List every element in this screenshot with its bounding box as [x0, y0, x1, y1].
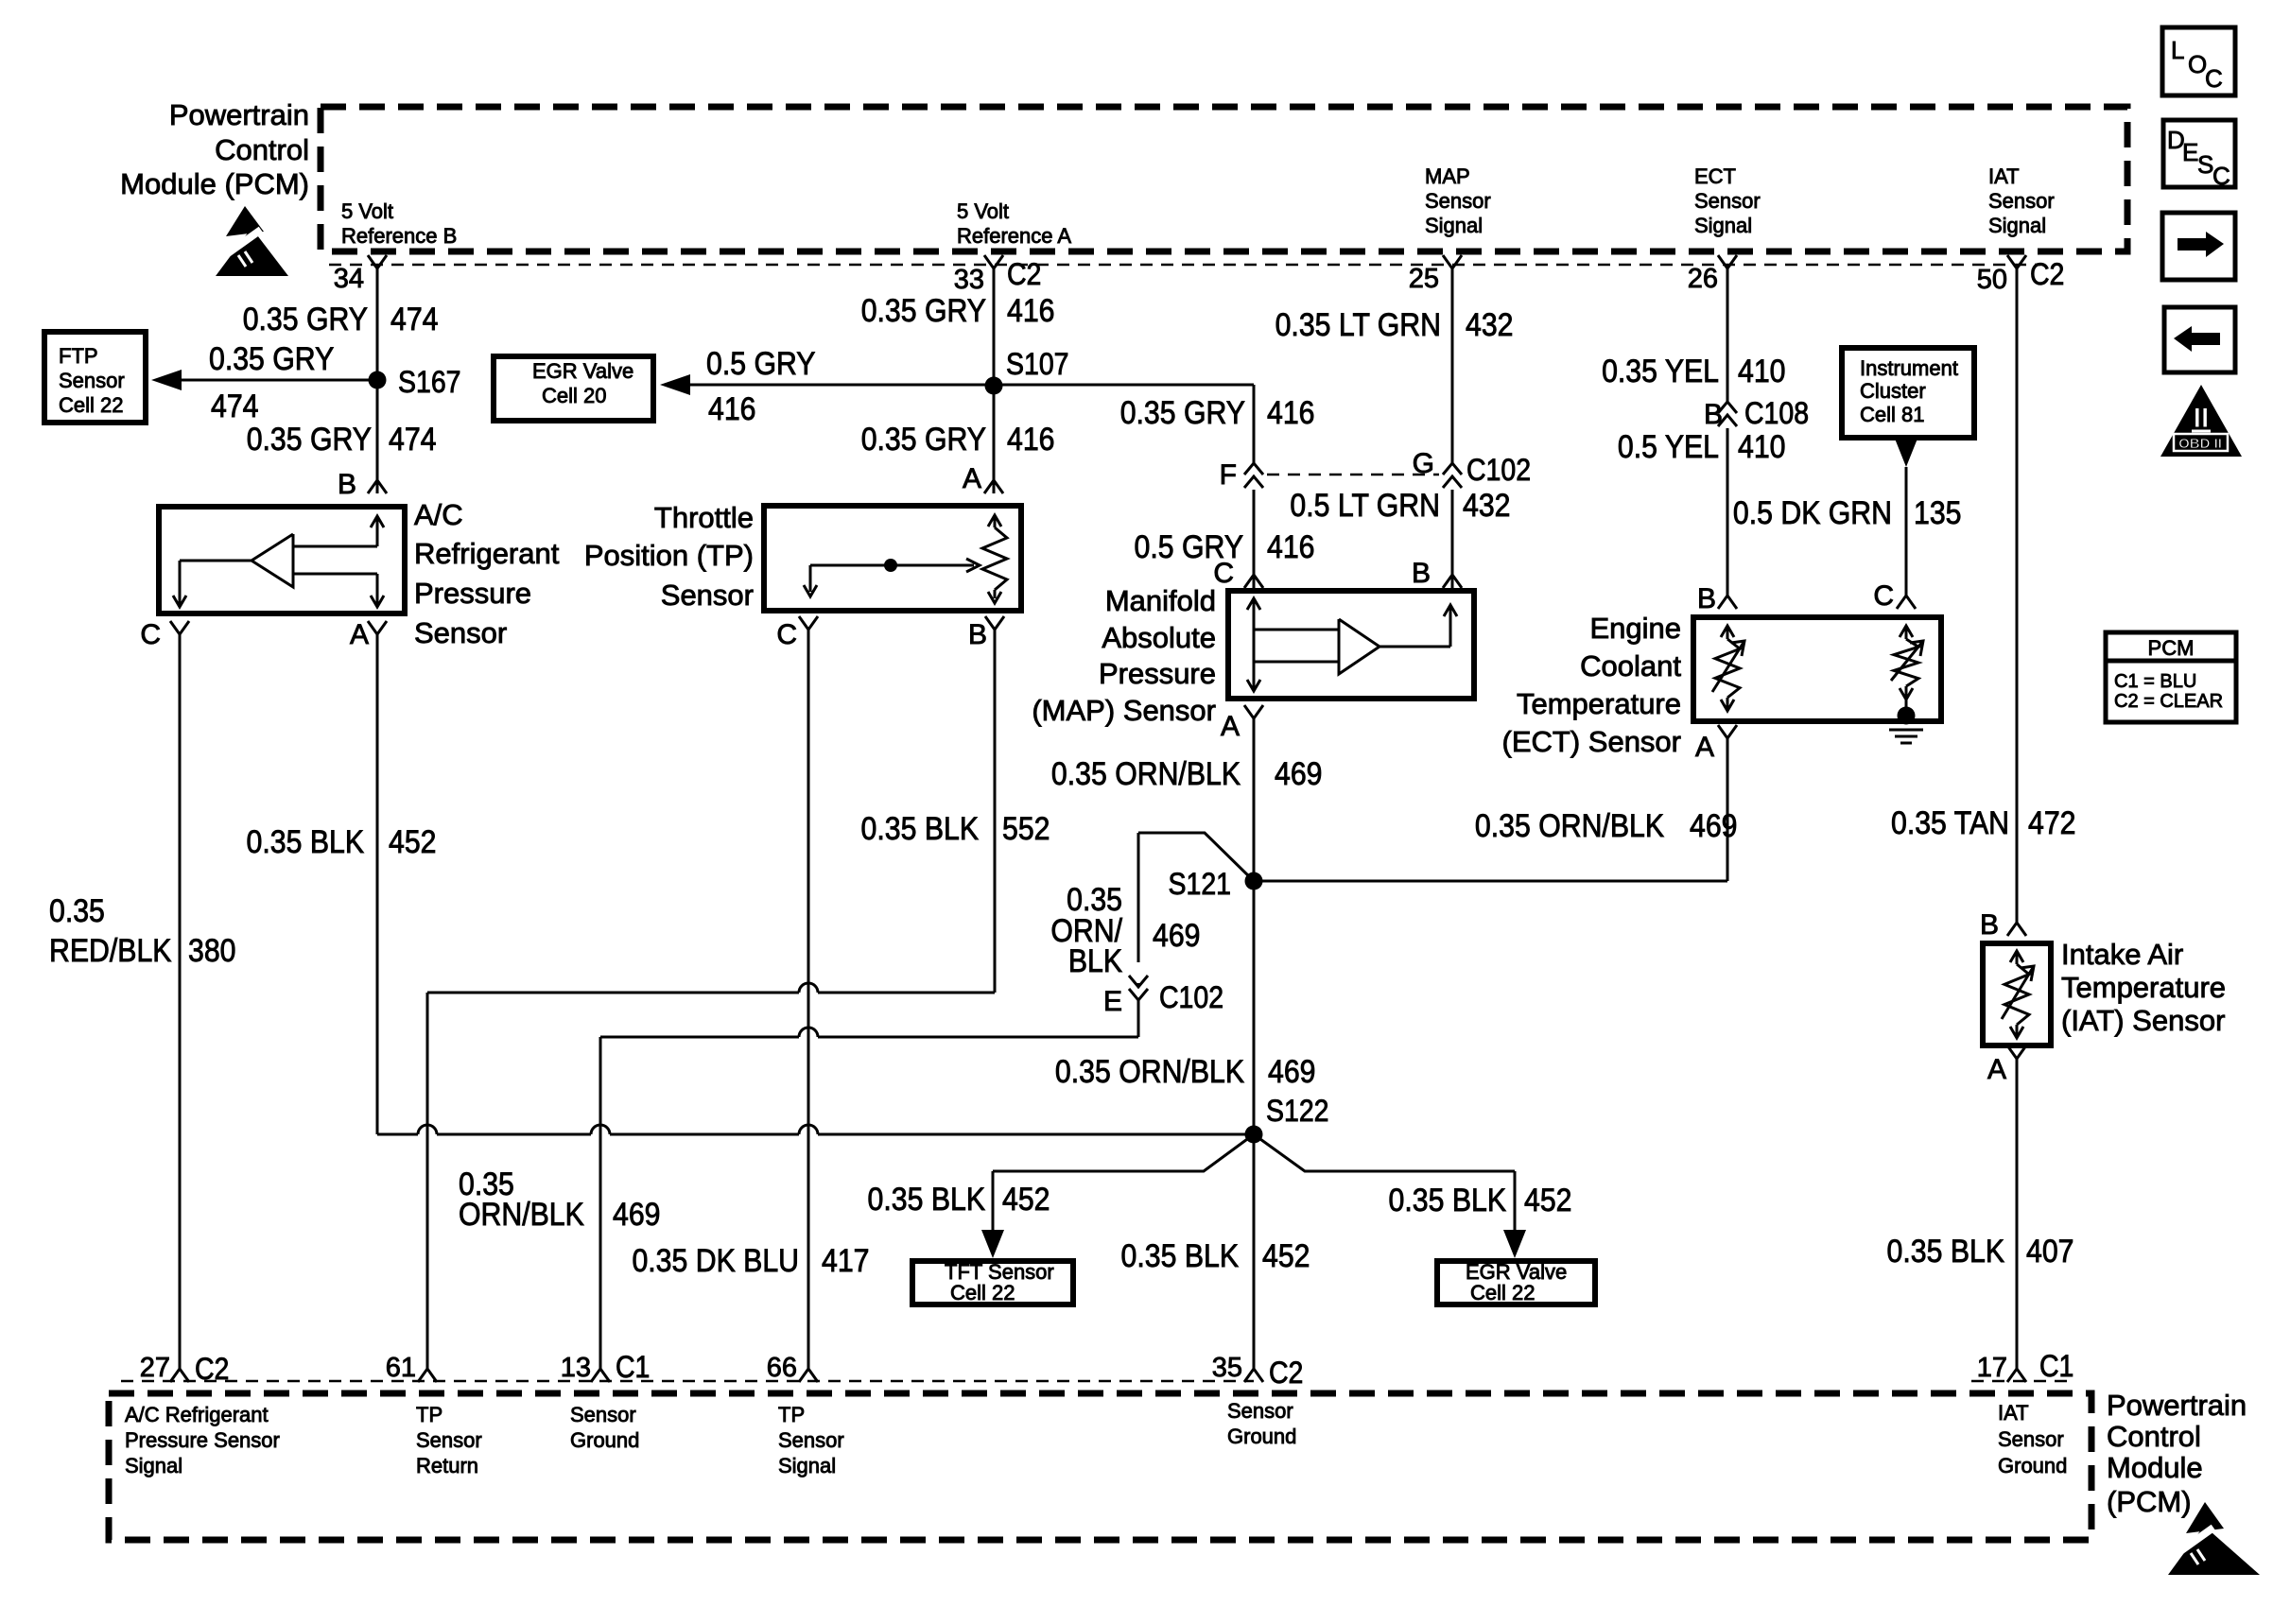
ECT sensor thermistor (right)	[1900, 626, 1913, 637]
svg-text:Cell 22: Cell 22	[950, 1281, 1015, 1304]
wire 552 horizontal run	[427, 992, 799, 994]
OBD II symbol	[2160, 385, 2242, 457]
svg-text:Reference B: Reference B	[341, 224, 457, 248]
svg-text:Temperature: Temperature	[2061, 971, 2226, 1004]
PCM module outline (top, dashed)	[321, 107, 2127, 251]
svg-text:ECT: ECT	[1694, 164, 1736, 188]
svg-text:RED/BLK: RED/BLK	[49, 932, 172, 968]
svg-text:0.5 DK GRN: 0.5 DK GRN	[1733, 494, 1892, 530]
connector C102 pin E	[1136, 962, 1141, 983]
svg-text:0.35 LT GRN: 0.35 LT GRN	[1275, 306, 1441, 342]
svg-text:0.35 GRY: 0.35 GRY	[861, 292, 986, 328]
connector C102 pin G	[1450, 467, 1455, 488]
svg-text:C: C	[1873, 580, 1894, 612]
svg-text:Sensor: Sensor	[416, 1428, 482, 1452]
junction S121	[1245, 872, 1263, 890]
PCM top connector C2 line (thin dashed)	[329, 264, 2040, 267]
svg-text:Signal: Signal	[1988, 214, 2046, 237]
ESD sensitivity symbol bottom-right	[2186, 1502, 2224, 1533]
svg-text:B: B	[1697, 583, 1716, 614]
label 0.35 GRY 416 (pin 33)	[861, 292, 986, 328]
svg-text:66: 66	[767, 1353, 797, 1383]
svg-text:C2: C2	[195, 1354, 229, 1387]
svg-text:27: 27	[140, 1353, 170, 1383]
wire 469 from S121 down to S122	[1253, 881, 1256, 1134]
svg-text:0.35 ORN/BLK: 0.35 ORN/BLK	[1055, 1053, 1245, 1089]
svg-text:C2 = CLEAR: C2 = CLEAR	[2114, 691, 2223, 712]
svg-text:0.5 LT GRN: 0.5 LT GRN	[1290, 487, 1440, 523]
svg-text:A: A	[963, 463, 981, 494]
C102 connector dashed line	[1267, 474, 1439, 476]
pin 50 connector (C2)	[2007, 255, 2026, 268]
svg-text:Module (PCM): Module (PCM)	[120, 167, 309, 200]
pin 25 connector	[1443, 255, 1462, 268]
wire 416 GRY from pin 33 to S107	[993, 268, 996, 386]
svg-text:C: C	[1213, 558, 1234, 589]
svg-text:A/C: A/C	[414, 498, 463, 531]
svg-text:0.35 BLK: 0.35 BLK	[247, 823, 365, 859]
svg-text:13: 13	[561, 1353, 591, 1383]
wire 410 from C108 to ECT sensor B	[1726, 428, 1729, 596]
wire 452 S122 branch to EGR valve	[1254, 1134, 1515, 1171]
label 0.35 BLK 452 (EGR)	[1389, 1182, 1507, 1218]
svg-text:0.35 ORN/BLK: 0.35 ORN/BLK	[1475, 807, 1665, 843]
svg-text:E: E	[2182, 138, 2198, 166]
svg-text:Ground: Ground	[1227, 1425, 1296, 1448]
svg-text:C: C	[776, 619, 797, 650]
junction S122	[1245, 1126, 1263, 1144]
svg-text:FTP: FTP	[59, 344, 98, 368]
svg-text:Sensor: Sensor	[1694, 189, 1761, 213]
svg-text:BLK: BLK	[1068, 942, 1123, 978]
label 0.35 ORN/BLK 469 (to E)	[1067, 881, 1122, 917]
svg-text:A: A	[1695, 732, 1714, 763]
svg-text:25: 25	[1409, 264, 1439, 294]
label 0.35 TAN 472	[1891, 804, 2009, 840]
svg-text:Coolant: Coolant	[1580, 649, 1681, 682]
svg-text:469: 469	[1268, 1053, 1315, 1089]
svg-text:432: 432	[1466, 306, 1513, 342]
svg-text:C1: C1	[616, 1352, 650, 1385]
svg-text:C1 = BLU: C1 = BLU	[2114, 671, 2196, 692]
svg-text:552: 552	[1002, 810, 1050, 846]
svg-text:C108: C108	[1744, 398, 1809, 431]
svg-text:S167: S167	[398, 367, 461, 400]
svg-text:Control: Control	[215, 133, 309, 166]
svg-text:B: B	[338, 469, 356, 500]
svg-text:5 Volt: 5 Volt	[957, 199, 1009, 223]
DESC navigation box	[2163, 120, 2235, 187]
svg-text:B: B	[1412, 558, 1431, 589]
wire 452 from S122 to pin 35	[1253, 1134, 1256, 1369]
svg-text:35: 35	[1212, 1353, 1242, 1383]
svg-text:0.35 YEL: 0.35 YEL	[1602, 353, 1719, 389]
svg-text:(IAT) Sensor: (IAT) Sensor	[2061, 1004, 2225, 1037]
svg-text:Pressure: Pressure	[1099, 657, 1216, 690]
svg-text:C2: C2	[1269, 1357, 1303, 1391]
svg-text:Engine: Engine	[1589, 612, 1681, 645]
label 0.35 ORN/BLK 469 (pin 13)	[459, 1166, 514, 1201]
svg-text:C: C	[2212, 162, 2230, 190]
svg-text:C102: C102	[1466, 455, 1531, 488]
svg-text:Intake Air: Intake Air	[2061, 938, 2183, 971]
svg-text:0.35 TAN: 0.35 TAN	[1891, 804, 2009, 840]
label 0.35 BLK 452 (below S122)	[1121, 1237, 1240, 1273]
svg-text:Signal: Signal	[778, 1454, 836, 1477]
svg-text:Powertrain: Powertrain	[2107, 1389, 2247, 1422]
svg-text:416: 416	[1267, 528, 1314, 564]
svg-text:S107: S107	[1006, 349, 1069, 382]
pin 26 connector	[1718, 255, 1737, 268]
svg-text:Cell 22: Cell 22	[59, 393, 123, 417]
A/C sensor internal symbol	[371, 516, 384, 527]
ECT internal ground	[1905, 700, 1908, 716]
svg-text:IAT: IAT	[1998, 1401, 2029, 1425]
svg-text:0.5 GRY: 0.5 GRY	[706, 345, 815, 381]
label 0.35 BLK 552	[861, 810, 980, 846]
wire 469 ORN/BLK from MAP A to S121	[1253, 718, 1256, 881]
svg-text:Signal: Signal	[125, 1454, 182, 1477]
label 0.35 LT GRN 432	[1275, 306, 1441, 342]
svg-text:PCM: PCM	[2148, 636, 2195, 660]
svg-text:0.35 ORN/BLK: 0.35 ORN/BLK	[1051, 755, 1241, 791]
svg-text:Cell 81: Cell 81	[1860, 403, 1924, 426]
Intake Air Temperature (IAT) sensor box	[1983, 943, 2051, 1045]
svg-text:Temperature: Temperature	[1517, 687, 1681, 720]
svg-text:B: B	[1980, 909, 1999, 941]
svg-text:452: 452	[389, 823, 436, 859]
svg-text:0.35 BLK: 0.35 BLK	[1887, 1233, 2005, 1269]
svg-text:0.35 DK BLU: 0.35 DK BLU	[632, 1242, 799, 1278]
svg-text:0.35 BLK: 0.35 BLK	[861, 810, 980, 846]
label 0.35 RED/BLK 380	[49, 892, 105, 928]
svg-text:417: 417	[822, 1242, 869, 1278]
svg-text:S122: S122	[1266, 1096, 1329, 1129]
svg-text:Ground: Ground	[1998, 1454, 2067, 1477]
svg-text:S121: S121	[1168, 869, 1231, 902]
wire 469 S121 to ECT A	[1254, 880, 1727, 883]
Engine Coolant Temperature (ECT) sensor box	[1693, 617, 1941, 721]
svg-text:410: 410	[1738, 428, 1785, 464]
svg-text:Sensor: Sensor	[1425, 189, 1491, 213]
svg-text:474: 474	[389, 421, 436, 457]
svg-text:432: 432	[1463, 487, 1510, 523]
label 0.35 GRY (over arrow)	[209, 340, 334, 376]
label 0.35 ORN/BLK 469 (ECT A)	[1475, 807, 1665, 843]
svg-text:416: 416	[1267, 394, 1314, 430]
svg-text:MAP: MAP	[1425, 164, 1470, 188]
svg-text:TP: TP	[416, 1403, 442, 1426]
svg-text:Powertrain: Powertrain	[169, 98, 309, 131]
label 0.5 LT GRN 432	[1290, 487, 1440, 523]
label 416 (under arrow)	[708, 390, 755, 426]
label 474 (under arrow)	[211, 388, 258, 423]
svg-text:0.5 YEL: 0.5 YEL	[1618, 428, 1719, 464]
svg-text:452: 452	[1002, 1181, 1050, 1217]
pin 33 connector (C2)	[984, 255, 1003, 268]
svg-text:F: F	[1220, 459, 1237, 491]
svg-text:B: B	[968, 619, 987, 650]
label 0.35 DK BLU 417	[632, 1242, 799, 1278]
svg-text:407: 407	[2026, 1233, 2073, 1269]
label 0.35 ORN/BLK 469 (S122)	[1055, 1053, 1245, 1089]
svg-text:A: A	[1987, 1054, 2006, 1085]
svg-text:0.35: 0.35	[49, 892, 105, 928]
svg-text:452: 452	[1262, 1237, 1310, 1273]
svg-text:A: A	[1221, 711, 1240, 742]
Instrument Cluster Cell 81 box	[1842, 348, 1974, 438]
wire 469 S121 branch to C102 E	[1138, 833, 1254, 881]
svg-text:Sensor: Sensor	[778, 1428, 844, 1452]
svg-text:469: 469	[613, 1196, 660, 1232]
svg-text:416: 416	[1007, 421, 1054, 457]
svg-text:Return: Return	[416, 1454, 478, 1477]
pin 17 connector (C1)	[2007, 1369, 2026, 1382]
wire 472 TAN from pin 50 to IAT sensor B	[2016, 268, 2019, 923]
wire 416 from S107 to EGR valve (arrow)	[690, 384, 994, 387]
svg-text:Sensor: Sensor	[1227, 1399, 1293, 1423]
svg-text:469: 469	[1690, 807, 1737, 843]
svg-text:469: 469	[1275, 755, 1322, 791]
svg-text:17: 17	[1977, 1353, 2007, 1383]
Throttle Position (TP) sensor box	[764, 506, 1021, 611]
svg-text:26: 26	[1688, 264, 1718, 294]
ESD sensitivity symbol top-left	[226, 206, 264, 236]
svg-text:0.35 GRY: 0.35 GRY	[861, 421, 986, 457]
wire 452 sensor ground from A/C A to S122	[377, 1133, 418, 1136]
arrow from instrument cluster	[1895, 439, 1917, 467]
wire 452 BLK from A/C sensor ground pin A	[376, 634, 379, 1134]
wire 416 from S107 corner down to C102 F	[994, 384, 1254, 387]
svg-text:0.35 BLK: 0.35 BLK	[1389, 1182, 1507, 1218]
svg-text:61: 61	[386, 1353, 416, 1383]
wire 452 S122 branch to TFT sensor	[993, 1134, 1254, 1171]
MAP sensor internal symbol	[1247, 598, 1260, 610]
pin 34 connector	[368, 255, 387, 268]
wire 432 LT GRN from pin 25 to C102 G	[1451, 268, 1454, 463]
svg-text:Reference A: Reference A	[957, 224, 1071, 248]
svg-text:C2: C2	[2030, 259, 2064, 292]
svg-text:472: 472	[2028, 804, 2075, 840]
svg-text:50: 50	[1977, 265, 2007, 295]
svg-text:474: 474	[390, 301, 438, 337]
connector C102 pin F	[1252, 467, 1257, 488]
svg-text:C2: C2	[1007, 259, 1041, 292]
wire 552 BLK from TP sensor B	[994, 630, 997, 993]
svg-text:0.35 GRY: 0.35 GRY	[247, 421, 372, 457]
TP sensor potentiometer symbol	[988, 515, 1001, 527]
svg-text:5 Volt: 5 Volt	[341, 199, 393, 223]
label 0.35 BLK 452 (TFT)	[868, 1181, 986, 1217]
svg-text:Sensor: Sensor	[1998, 1427, 2064, 1451]
pin 35 connector (C2)	[1244, 1369, 1263, 1382]
wire 135 DK GRN to ECT sensor C	[1905, 467, 1908, 596]
svg-text:Cell 20: Cell 20	[542, 384, 606, 407]
svg-text:L: L	[2171, 36, 2184, 64]
Manifold Absolute Pressure (MAP) sensor box	[1228, 591, 1474, 699]
svg-text:0.35 GRY: 0.35 GRY	[1120, 394, 1245, 430]
svg-text:B: B	[1704, 399, 1723, 430]
wire 474 from pin 34 to S167	[376, 268, 379, 380]
FTP Sensor Cell 22 box	[44, 332, 146, 423]
label 0.5 GRY (over arrow)	[706, 345, 815, 381]
wire 380 RED/BLK (A/C signal) to pin 27	[179, 634, 182, 1369]
junction S107	[985, 377, 1003, 395]
svg-text:416: 416	[708, 390, 755, 426]
svg-text:33: 33	[954, 265, 984, 295]
svg-text:C: C	[140, 619, 161, 650]
wire 407 BLK from IAT A to pin 17	[2016, 1059, 2019, 1369]
wire 474 from S167 to A/C sensor B	[376, 380, 379, 493]
label 0.5 DK GRN 135	[1733, 494, 1892, 530]
svg-text:Ground: Ground	[570, 1428, 639, 1452]
ECT sensor thermistor (left)	[1721, 626, 1734, 637]
svg-text:A: A	[350, 619, 369, 650]
PCM module outline (bottom, dashed)	[109, 1393, 2091, 1540]
label 0.35 GRY 474 (upper)	[243, 301, 368, 337]
svg-text:Manifold: Manifold	[1105, 584, 1216, 617]
svg-text:469: 469	[1153, 917, 1200, 953]
label 0.35 GRY 474 (lower)	[247, 421, 372, 457]
svg-text:EGR Valve: EGR Valve	[532, 359, 633, 383]
wire 469 from C102 E to pin 13	[1137, 1000, 1140, 1037]
svg-text:Absolute: Absolute	[1102, 621, 1216, 654]
svg-text:Signal: Signal	[1425, 214, 1483, 237]
svg-text:II: II	[2194, 403, 2210, 434]
svg-text:Cell 22: Cell 22	[1470, 1281, 1535, 1304]
svg-text:IAT: IAT	[1988, 164, 2020, 188]
label 0.35 YEL 410	[1602, 353, 1719, 389]
PCM connector color legend box	[2106, 632, 2236, 722]
svg-text:Position (TP): Position (TP)	[584, 539, 754, 572]
svg-text:474: 474	[211, 388, 258, 423]
svg-text:Pressure: Pressure	[414, 577, 531, 610]
EGR Valve Cell 20 box	[494, 356, 653, 421]
wire 416 from S107 to TP sensor A	[993, 386, 996, 493]
TFT Sensor Cell 22 box	[912, 1261, 1073, 1304]
svg-text:0.35 GRY: 0.35 GRY	[243, 301, 368, 337]
label 0.35 BLK 452 (A/C ground)	[247, 823, 365, 859]
pin 61 connector	[418, 1369, 437, 1382]
svg-text:A/C Refrigerant: A/C Refrigerant	[125, 1403, 269, 1426]
label 0.5 YEL 410	[1618, 428, 1719, 464]
svg-text:OBD II: OBD II	[2178, 436, 2222, 452]
svg-text:135: 135	[1914, 494, 1961, 530]
svg-text:Throttle: Throttle	[654, 501, 754, 534]
label 0.35 BLK 407	[1887, 1233, 2005, 1269]
svg-text:416: 416	[1007, 292, 1054, 328]
svg-text:C: C	[2205, 64, 2223, 93]
wire 416 from C102 F to MAP sensor C	[1253, 490, 1256, 588]
label 0.35 GRY 416 (to F)	[1120, 394, 1245, 430]
junction S167	[369, 371, 387, 389]
connector C108 pin B	[1726, 406, 1730, 426]
wire 552 drop to pin 61	[426, 993, 429, 1369]
wire 417 DK BLU (TP signal) to pin 66	[807, 630, 810, 1369]
arrow-right navigation box	[2162, 213, 2235, 280]
svg-text:0.35 BLK: 0.35 BLK	[1121, 1237, 1240, 1273]
svg-text:C102: C102	[1159, 982, 1223, 1015]
LOC navigation box	[2162, 27, 2235, 95]
wire 474 to FTP sensor (arrow)	[182, 379, 377, 382]
svg-text:452: 452	[1524, 1182, 1571, 1218]
svg-text:0.35 GRY: 0.35 GRY	[209, 340, 334, 376]
EGR Valve Cell 22 box	[1437, 1261, 1595, 1304]
svg-text:(ECT) Sensor: (ECT) Sensor	[1502, 725, 1681, 758]
svg-text:Control: Control	[2107, 1420, 2201, 1453]
label 0.5 GRY 416 (to MAP C)	[1135, 528, 1243, 564]
svg-text:(MAP) Sensor: (MAP) Sensor	[1032, 694, 1216, 727]
svg-text:Module: Module	[2107, 1451, 2203, 1484]
wire 432 from C102 G to MAP sensor B	[1451, 490, 1454, 588]
IAT sensor thermistor	[2010, 951, 2023, 962]
svg-text:C1: C1	[2039, 1351, 2073, 1384]
svg-text:S: S	[2197, 150, 2213, 179]
svg-text:0.35 BLK: 0.35 BLK	[868, 1181, 986, 1217]
pin 27 connector (C2)	[170, 1369, 189, 1382]
svg-text:Cluster: Cluster	[1860, 379, 1926, 403]
pin 66 connector	[799, 1369, 818, 1382]
svg-text:34: 34	[334, 264, 364, 294]
svg-text:Sensor: Sensor	[59, 369, 125, 392]
A/C refrigerant pressure sensor box	[159, 507, 405, 613]
svg-text:(PCM): (PCM)	[2107, 1485, 2192, 1518]
svg-text:Sensor: Sensor	[1988, 189, 2055, 213]
svg-text:Sensor: Sensor	[414, 616, 507, 649]
PCM bottom connector line (thin dashed)	[121, 1380, 1254, 1383]
pin 13 connector (C1)	[591, 1369, 610, 1382]
svg-text:Pressure Sensor: Pressure Sensor	[125, 1428, 280, 1452]
svg-text:ORN/BLK: ORN/BLK	[459, 1196, 584, 1232]
svg-text:E: E	[1103, 986, 1122, 1017]
arrow-left navigation box	[2164, 307, 2235, 372]
svg-text:Instrument: Instrument	[1860, 356, 1958, 380]
svg-text:410: 410	[1738, 353, 1785, 389]
svg-text:Signal: Signal	[1694, 214, 1752, 237]
svg-text:Sensor: Sensor	[661, 579, 754, 612]
label 0.35 ORN/BLK 469 (MAP A)	[1051, 755, 1241, 791]
svg-text:Refrigerant: Refrigerant	[414, 537, 560, 570]
label 0.35 GRY 416 (to TP A)	[861, 421, 986, 457]
svg-text:Sensor: Sensor	[570, 1403, 636, 1426]
svg-text:380: 380	[188, 932, 235, 968]
svg-text:TP: TP	[778, 1403, 805, 1426]
wire 410 YEL from pin 26 to C108	[1726, 268, 1729, 402]
